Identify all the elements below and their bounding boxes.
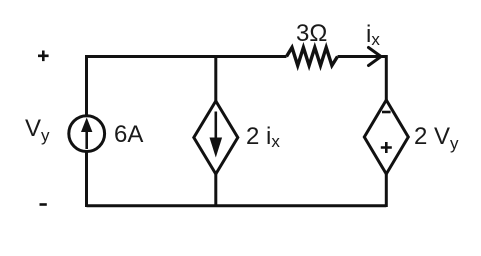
- wire top: left segment from top-left corner to resistor: [87, 55, 287, 58]
- wire right vertical (bottom part): [385, 174, 388, 207]
- wire top: right segment from resistor to top-right corner: [338, 55, 387, 58]
- svg-text:2 ix: 2 ix: [246, 123, 280, 151]
- dependent current source arrow (down): [215, 112, 218, 141]
- wire middle vertical (top part): [214, 55, 217, 101]
- svg-text:6A: 6A: [114, 121, 143, 148]
- dependent voltage source (2 Vy) diamond: [364, 100, 408, 174]
- voltage source plus sign (bottom): [381, 142, 392, 153]
- label - (bottom left, node polarity): [40, 203, 47, 206]
- svg-text:ix: ix: [366, 21, 380, 49]
- wire right vertical (top part): [385, 55, 388, 100]
- wire left vertical (top part): [85, 55, 88, 116]
- wire middle vertical (bottom part): [214, 174, 217, 207]
- current source I1 arrow (up): [85, 130, 88, 149]
- svg-text:Vy: Vy: [25, 115, 50, 145]
- label + (top left, node polarity): [38, 51, 49, 62]
- dependent current source (2 i_x) diamond: [194, 101, 238, 174]
- wire bottom: [87, 204, 387, 207]
- current arrow i_x on top wire: [369, 48, 382, 66]
- wire left vertical (bottom part): [85, 152, 88, 208]
- resistor R (3 ohm) zigzag: [287, 48, 338, 66]
- voltage source minus sign (top): [382, 111, 391, 114]
- svg-text:3Ω: 3Ω: [296, 20, 327, 47]
- current source I1 (6A) circle: [69, 116, 105, 152]
- svg-text:2 Vy: 2 Vy: [414, 123, 459, 153]
